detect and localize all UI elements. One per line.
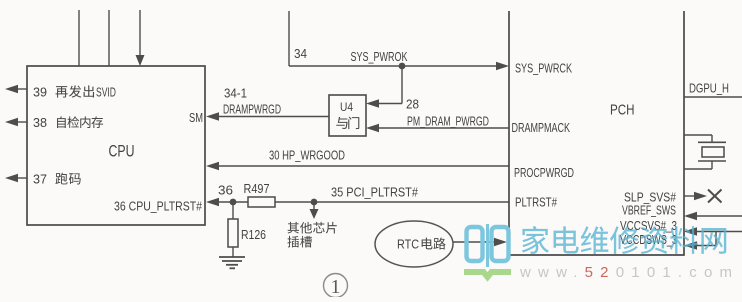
wire into CPU top 1 [78, 10, 80, 66]
svg-text:SVID: SVID [96, 85, 116, 100]
node junction SYS_PWROK [399, 63, 406, 70]
wire R126 to ground [232, 247, 234, 257]
svg-text:36 CPU_PLTRST#: 36 CPU_PLTRST# [114, 199, 203, 214]
svg-text:VBREF_SWS: VBREF_SWS [622, 203, 676, 218]
svg-text:PCH: PCH [610, 102, 635, 119]
CPU U1 box [27, 66, 205, 225]
svg-text:R126: R126 [241, 227, 266, 242]
CPU pin 37 arrow [17, 177, 27, 179]
wire crystal top [684, 134, 712, 136]
svg-text:35 PCI_PLTRST#: 35 PCI_PLTRST# [331, 185, 419, 200]
watermark text [522, 226, 727, 254]
node junction other-chip [311, 199, 318, 206]
crystal Y1 [698, 141, 726, 143]
wire HP_WRGOOD [217, 165, 509, 167]
svg-text:PROCPWRGD: PROCPWRGD [514, 165, 574, 180]
svg-text:PM_DRAM_PWRGD: PM_DRAM_PWRGD [407, 114, 489, 129]
svg-text:38: 38 [33, 115, 47, 130]
CPU pin 38 arrow [17, 121, 27, 123]
wire into CPU top 2 [108, 10, 110, 66]
RTC circuit ellipse [375, 221, 453, 267]
svg-text:1: 1 [331, 276, 341, 297]
wire VBREF_SWS [695, 215, 742, 217]
wire RTC to PCH [453, 241, 496, 243]
watermark book icon [467, 224, 509, 267]
wire SYS_PWROK [288, 11, 290, 66]
wire to other chips [313, 202, 315, 210]
wire into CPU top 3 [139, 10, 141, 55]
svg-text:SYS_PWROK: SYS_PWROK [351, 49, 408, 64]
ground [219, 256, 245, 258]
no-connect X [708, 190, 722, 203]
svg-text:RTC: RTC [397, 237, 419, 252]
figure number 1 [324, 274, 348, 298]
wire VCCDSWS_3 [695, 245, 716, 247]
CPU pin 39 arrow [17, 88, 27, 90]
svg-text:30 HP_WRGOOD: 30 HP_WRGOOD [269, 148, 345, 163]
svg-text:DRAMPWRGD: DRAMPWRGD [223, 102, 281, 117]
wire R126 top [232, 202, 234, 219]
op-amp U4 box [329, 95, 366, 136]
svg-text:PLTRST#: PLTRST# [515, 195, 558, 210]
wire SLP_SVS# [684, 195, 696, 197]
wire 28 to U4 [401, 66, 403, 104]
svg-text:34-1: 34-1 [224, 86, 247, 101]
svg-text:28: 28 [406, 97, 419, 112]
svg-text:CPU: CPU [109, 143, 135, 161]
wire crystal bottom [711, 161, 713, 169]
wire DRAMPWRGD [217, 116, 329, 118]
node junction 36 [230, 199, 237, 206]
svg-text:SYS_PWRCK: SYS_PWRCK [515, 61, 572, 76]
wire DGPU_H [684, 96, 742, 98]
svg-text:www.520101.com: www.520101.com [519, 264, 739, 281]
svg-text:SM: SM [189, 110, 203, 125]
wire PM_DRAM_PWRGD [377, 127, 509, 129]
svg-text:DRAMPMACK: DRAMPMACK [512, 120, 571, 135]
wire PCI_PLTRST# [217, 201, 509, 203]
PCH U2 box [509, 11, 684, 255]
svg-text:39: 39 [33, 85, 47, 100]
svg-text:36: 36 [218, 183, 233, 198]
resistor R126 [228, 219, 238, 247]
resistor R497 [248, 197, 275, 207]
label other chips [288, 222, 299, 234]
svg-text:37: 37 [33, 172, 47, 187]
wire VCC branch [715, 232, 717, 246]
svg-text:DGPU_H: DGPU_H [689, 81, 729, 96]
svg-text:R497: R497 [244, 181, 270, 196]
wire VCCSVS#_3 [695, 231, 742, 233]
svg-text:34: 34 [294, 46, 307, 61]
svg-text:U4: U4 [340, 100, 353, 114]
